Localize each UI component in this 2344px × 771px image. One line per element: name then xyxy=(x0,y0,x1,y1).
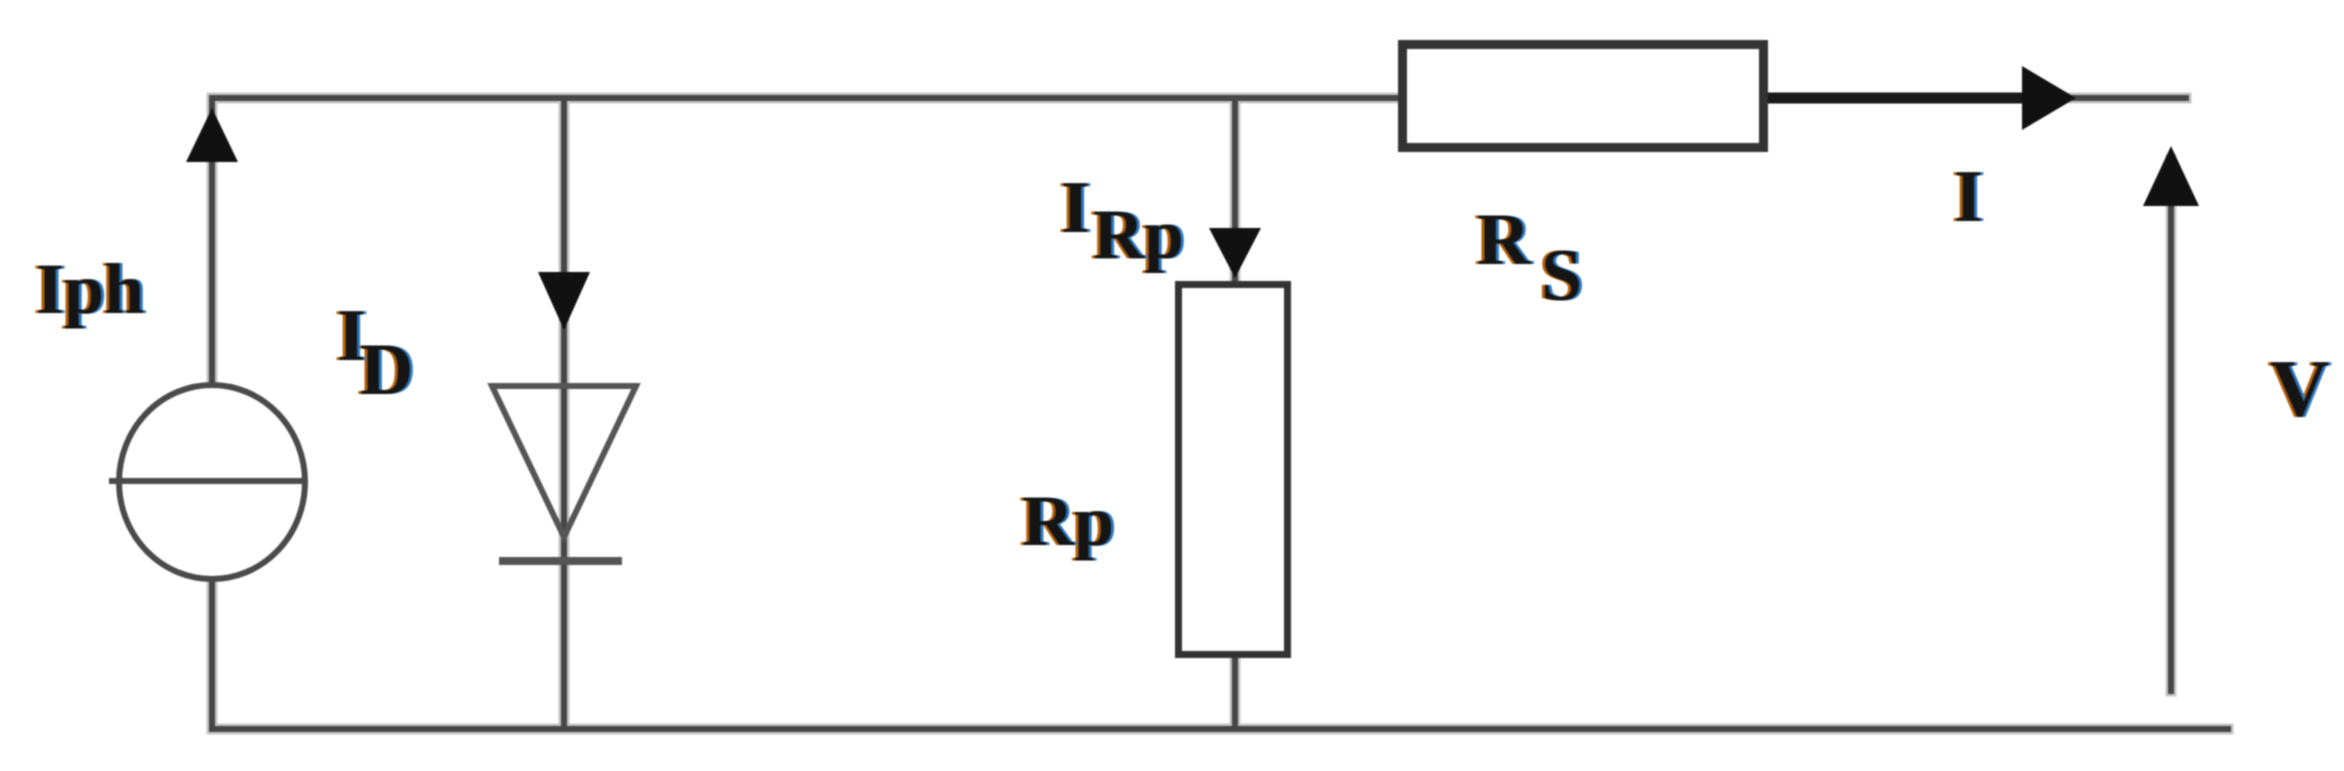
svg-text:R: R xyxy=(1477,199,1532,281)
svg-text:Rp: Rp xyxy=(1093,196,1184,274)
svg-text:I: I xyxy=(1061,167,1090,249)
svg-text:I: I xyxy=(1954,156,1983,238)
svg-text:S: S xyxy=(1541,235,1582,317)
svg-text:D: D xyxy=(360,329,413,411)
svg-text:V: V xyxy=(2270,343,2329,434)
svg-text:Iph: Iph xyxy=(36,249,144,329)
svg-text:Rp: Rp xyxy=(1022,481,1114,561)
